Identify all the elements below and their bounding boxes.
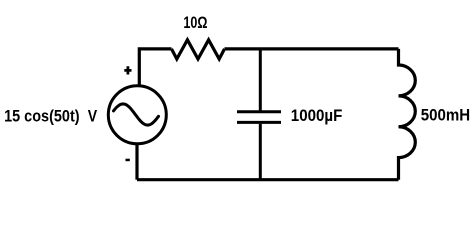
svg-text:15 cos(50t): 15 cos(50t)	[4, 107, 80, 126]
capacitor C1 bottom plate	[237, 121, 281, 124]
capacitor C1 top plate	[237, 110, 281, 113]
wire source bottom lead	[135, 143, 138, 179]
wire bottom	[137, 178, 399, 181]
svg-text:500mH: 500mH	[421, 106, 470, 125]
svg-text:V: V	[88, 107, 97, 126]
svg-text:10Ω: 10Ω	[183, 14, 207, 32]
source V1 circle	[108, 86, 166, 144]
minus polarity mark	[126, 159, 130, 162]
wire top-left (source + terminal to resistor)	[139, 49, 171, 86]
sine wave inside source	[114, 104, 159, 125]
resistor R1 10Ω	[172, 40, 225, 59]
inductor L1 500mH (right branch)	[399, 49, 416, 180]
svg-text:1000µF: 1000µF	[291, 107, 343, 125]
capacitor C1 top lead	[259, 49, 262, 111]
plus polarity mark	[124, 66, 131, 74]
capacitor C1 bottom lead	[259, 124, 262, 180]
wire top middle (resistor to top-right corner, through capacitor node)	[225, 47, 399, 50]
